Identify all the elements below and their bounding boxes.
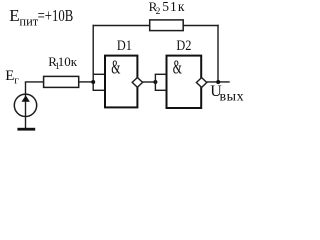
wire D2 output: [207, 81, 230, 83]
inversion bubble D2: [196, 78, 206, 88]
wire D1 top input stub: [93, 73, 106, 75]
wire from source Eг to R1: [25, 81, 44, 83]
svg-text:&: &: [173, 58, 182, 79]
svg-text:г: г: [14, 75, 19, 87]
gate D2: [167, 56, 202, 108]
gate D1: [105, 56, 137, 108]
wire D2 input vertical bar: [154, 74, 156, 90]
svg-text:=+10В: =+10В: [38, 7, 74, 25]
svg-text:E: E: [9, 6, 19, 25]
wire left vertical feedback: [92, 25, 94, 91]
svg-text:2: 2: [156, 7, 161, 17]
svg-text:вых: вых: [220, 89, 245, 104]
svg-text:51к: 51к: [162, 0, 185, 14]
wire right vertical to output node: [217, 25, 219, 82]
svg-text:10к: 10к: [58, 54, 78, 69]
svg-text:D2: D2: [176, 37, 191, 53]
wire D2 bottom input stub: [155, 89, 167, 91]
svg-text:&: &: [111, 58, 120, 79]
wire D1 bottom input stub: [93, 89, 106, 91]
label Uвых: [210, 83, 244, 104]
label R2 51к: [149, 0, 186, 17]
wire R1 to input node: [79, 81, 94, 83]
svg-text:пит: пит: [19, 14, 38, 28]
source Eг arrow: [22, 95, 30, 101]
label Eг: [5, 68, 19, 87]
label R1 10к: [48, 54, 78, 72]
node input junction dot: [91, 80, 95, 84]
wire top right horizontal: [183, 25, 219, 27]
wire D2 top input stub: [155, 73, 167, 75]
node D2 input junction dot: [153, 80, 157, 84]
inversion bubble D1: [132, 78, 142, 88]
wire source stem vertical: [25, 82, 27, 129]
label Eпит=+10В: [9, 6, 73, 28]
resistor R2: [150, 20, 184, 31]
wire D1 output to D2 input: [143, 81, 156, 83]
node output junction dot: [216, 80, 220, 84]
ground: [17, 128, 35, 131]
source Eг circle: [14, 94, 36, 116]
wire top left horizontal: [93, 25, 151, 27]
resistor R1: [44, 76, 79, 87]
svg-text:E: E: [5, 68, 14, 84]
svg-text:D1: D1: [117, 37, 132, 53]
